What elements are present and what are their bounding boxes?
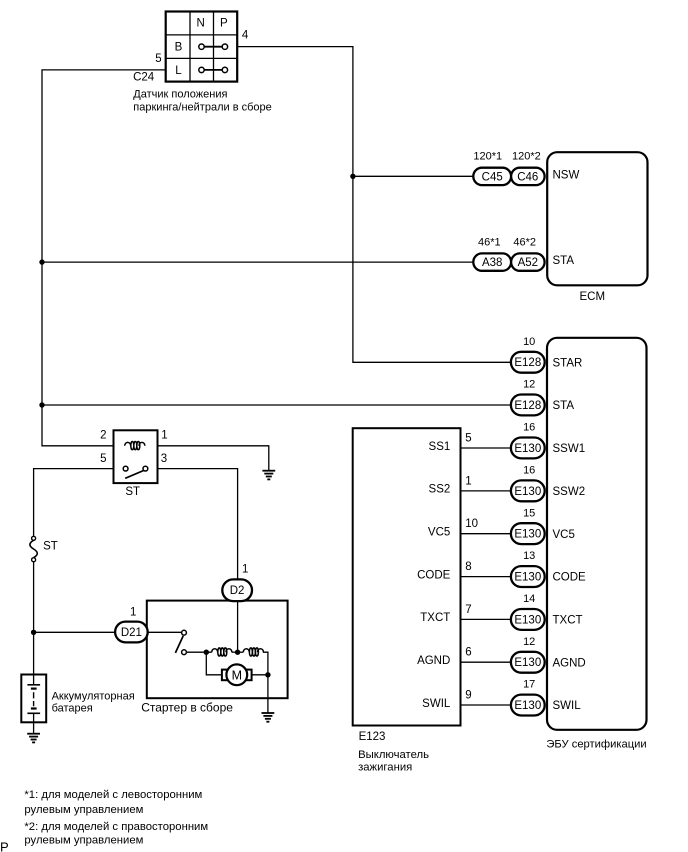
svg-text:E130: E130 — [514, 529, 541, 541]
starter coil L2 — [243, 648, 263, 656]
svg-text:1: 1 — [242, 564, 248, 576]
wire E123 SS2 to E130 SSW2 — [461, 490, 511, 492]
svg-text:P: P — [0, 840, 9, 852]
svg-text:паркинга/нейтрали в сборе: паркинга/нейтрали в сборе — [133, 101, 271, 113]
svg-text:CODE: CODE — [417, 569, 451, 581]
svg-text:C46: C46 — [517, 171, 538, 183]
svg-text:Датчик положения: Датчик положения — [133, 88, 227, 100]
wire E123 TXCT to E130 TXCT — [461, 618, 511, 620]
svg-text:Аккумуляторная: Аккумуляторная — [52, 690, 135, 702]
svg-text:12: 12 — [523, 636, 535, 648]
svg-text:AGND: AGND — [553, 657, 586, 669]
node G junction dot motor right — [265, 672, 270, 677]
wire switch to node F — [186, 651, 212, 653]
svg-text:ЭБУ сертификации: ЭБУ сертификации — [546, 739, 646, 751]
svg-text:M: M — [232, 668, 242, 682]
node C junction dot — [39, 402, 44, 407]
connector E130 pin 15 VC5 — [428, 507, 575, 544]
svg-text:D2: D2 — [230, 585, 245, 597]
starter coil L1 — [212, 648, 232, 656]
node D junction dot — [31, 630, 36, 635]
wire E123 CODE to E130 CODE — [461, 576, 511, 578]
svg-text:E130: E130 — [514, 614, 541, 626]
C24 contact row B — [204, 46, 222, 48]
connector E128 pin 12 STA — [511, 379, 574, 416]
svg-text:8: 8 — [465, 561, 471, 573]
svg-text:Выключатель: Выключатель — [358, 749, 429, 761]
wire E123 VC5 to E130 VC5 — [461, 533, 511, 535]
svg-text:P: P — [220, 17, 228, 29]
wire branch node D to connector D21 — [34, 631, 116, 633]
svg-text:L: L — [175, 65, 182, 77]
ground G3 for battery — [27, 734, 40, 743]
connector D2 — [222, 564, 252, 601]
C24 description label — [133, 88, 271, 113]
svg-text:2: 2 — [100, 430, 106, 442]
svg-text:13: 13 — [523, 550, 535, 562]
battery description label — [52, 690, 135, 714]
svg-text:ECM: ECM — [580, 291, 606, 303]
svg-text:VC5: VC5 — [553, 529, 575, 541]
wire motor right brush to node G — [252, 674, 268, 676]
node E junction dot — [235, 650, 240, 655]
svg-text:E130: E130 — [514, 486, 541, 498]
svg-text:E130: E130 — [514, 657, 541, 669]
wire connector D2 to starter coil junction node E — [237, 601, 239, 652]
connector A52 — [511, 253, 544, 270]
fuse ST — [30, 536, 58, 561]
connector A38 — [473, 253, 511, 270]
battery — [21, 675, 46, 734]
svg-text:NSW: NSW — [553, 169, 580, 181]
wire starter coil 2 to right rail and ground G2 — [263, 652, 268, 712]
svg-text:*1: для моделей с левосторонни: *1: для моделей с левосторонним — [24, 789, 202, 801]
battery plate short top — [31, 687, 37, 689]
svg-text:SWIL: SWIL — [422, 698, 451, 710]
node F junction dot — [204, 650, 209, 655]
svg-text:46*1: 46*1 — [478, 236, 501, 248]
svg-text:рулевым управлением: рулевым управлением — [24, 804, 143, 816]
E123 ignition switch block — [353, 428, 461, 725]
svg-text:SSW1: SSW1 — [553, 443, 586, 455]
footnote *1 — [24, 789, 202, 816]
svg-text:E130: E130 — [514, 572, 541, 584]
connector D21 — [115, 607, 148, 643]
starter assembly box — [147, 601, 288, 699]
battery plate long top — [27, 684, 40, 686]
wire E123 SWIL to E130 SWIL — [461, 704, 511, 706]
svg-text:9: 9 — [465, 690, 471, 702]
C24 table header labels — [133, 17, 249, 83]
wire branch node A to ECM C45 NSW — [353, 175, 473, 177]
connector E130 pin 13 CODE — [417, 550, 586, 587]
svg-text:1: 1 — [465, 475, 471, 487]
wire relay pin 3 to connector D2 — [158, 469, 238, 580]
connector E130 pin 17 SWIL — [422, 679, 581, 716]
wire node F down to motor left brush — [206, 652, 222, 675]
svg-text:16: 16 — [523, 465, 535, 477]
ECM block U1 — [547, 152, 647, 285]
svg-text:E130: E130 — [514, 443, 541, 455]
connector E130 pin 16 SSW1 — [429, 422, 586, 459]
svg-text:E130: E130 — [514, 700, 541, 712]
svg-text:5: 5 — [155, 53, 161, 65]
footnote *2 — [24, 821, 208, 846]
svg-text:4: 4 — [242, 30, 249, 42]
node A junction dot — [350, 174, 355, 179]
svg-text:E123: E123 — [359, 731, 386, 743]
wire relay pin 5 to fuse ST — [34, 469, 114, 537]
svg-text:SWIL: SWIL — [553, 700, 582, 712]
battery dashed link — [33, 692, 35, 706]
wire branch node B to ECM A38 STA — [42, 261, 473, 263]
wire branch node C to E128 STA — [42, 404, 511, 406]
wire fuse ST to battery — [33, 562, 35, 675]
battery plate long bottom — [27, 712, 40, 714]
battery bottom stub to ground — [33, 713, 35, 733]
connector C45 — [473, 168, 511, 185]
svg-text:3: 3 — [161, 453, 167, 465]
motor M brushes — [222, 670, 231, 681]
svg-text:Стартер в сборе: Стартер в сборе — [141, 701, 233, 715]
svg-text:46*2: 46*2 — [513, 236, 536, 248]
svg-text:B: B — [175, 42, 183, 54]
svg-text:рулевым управлением: рулевым управлением — [24, 834, 143, 846]
svg-text:10: 10 — [465, 518, 478, 530]
svg-text:6: 6 — [465, 647, 471, 659]
svg-text:E128: E128 — [514, 357, 541, 369]
svg-text:TXCT: TXCT — [420, 612, 450, 624]
svg-text:ST: ST — [43, 541, 58, 553]
svg-text:TXCT: TXCT — [553, 615, 583, 627]
svg-text:N: N — [197, 17, 205, 29]
motor M — [226, 664, 247, 685]
wire relay pin 1 to ground G1 — [158, 446, 269, 470]
relay ST switch contacts — [123, 466, 128, 471]
ground G1 for relay pin 1 — [262, 471, 275, 480]
svg-text:14: 14 — [523, 593, 535, 605]
svg-text:VC5: VC5 — [428, 527, 450, 539]
svg-text:AGND: AGND — [417, 655, 450, 667]
svg-text:SS1: SS1 — [429, 441, 451, 453]
svg-text:15: 15 — [523, 507, 535, 519]
wire E123 AGND to E130 AGND — [461, 661, 511, 663]
battery plate short bottom — [31, 707, 37, 709]
svg-text:CODE: CODE — [553, 572, 587, 584]
relay ST — [100, 430, 168, 499]
svg-text:E128: E128 — [514, 400, 541, 412]
svg-text:SS2: SS2 — [429, 484, 451, 496]
svg-text:STA: STA — [553, 400, 575, 412]
starter switch contacts — [175, 630, 186, 654]
wire between starter coils through node E — [232, 651, 244, 653]
svg-text:C24: C24 — [133, 71, 155, 83]
wire from C24 pin 4 to node A and down to E128 STAR — [237, 47, 511, 363]
svg-text:D21: D21 — [121, 627, 142, 639]
svg-text:10: 10 — [523, 336, 535, 348]
svg-text:16: 16 — [523, 422, 535, 434]
svg-text:A52: A52 — [518, 257, 538, 269]
svg-text:7: 7 — [465, 604, 471, 616]
svg-text:C45: C45 — [482, 171, 503, 183]
certification ECU block U2 — [547, 338, 647, 730]
svg-text:SSW2: SSW2 — [553, 486, 586, 498]
connector E130 pin 14 TXCT — [420, 593, 582, 630]
svg-text:12: 12 — [523, 379, 535, 391]
svg-text:*2: для моделей с правосторонн: *2: для моделей с правосторонним — [24, 821, 208, 833]
svg-text:1: 1 — [161, 430, 167, 442]
wire starter input to switch — [147, 631, 182, 633]
battery top stub — [33, 675, 35, 685]
svg-text:STAR: STAR — [553, 357, 583, 369]
svg-text:A38: A38 — [482, 257, 502, 269]
ignition switch description label — [358, 749, 429, 773]
svg-text:5: 5 — [100, 453, 106, 465]
svg-text:120*2: 120*2 — [512, 151, 541, 163]
wire E123 SS1 to E130 SSW1 — [461, 447, 511, 449]
connector E130 pin 16 SSW2 — [429, 465, 586, 502]
svg-text:ST: ST — [125, 486, 140, 498]
svg-text:1: 1 — [130, 607, 136, 619]
C24 contact row L — [204, 69, 222, 71]
svg-text:5: 5 — [465, 432, 471, 444]
ground G2 for starter — [262, 713, 275, 722]
relay ST coil — [125, 442, 145, 450]
svg-text:120*1: 120*1 — [473, 151, 502, 163]
svg-text:батарея: батарея — [52, 702, 93, 714]
wire from C24 pin 5 down left bus to relay pin 2 — [42, 70, 166, 446]
connector C46 — [511, 168, 544, 185]
connector C24 park/neutral position switch table — [166, 12, 238, 82]
connector E130 pin 12 AGND — [417, 636, 586, 673]
node B junction dot — [39, 259, 44, 264]
svg-text:17: 17 — [523, 679, 535, 691]
connector E128 pin 10 STAR — [511, 336, 582, 373]
svg-text:STA: STA — [553, 255, 575, 267]
svg-text:зажигания: зажигания — [358, 761, 412, 773]
